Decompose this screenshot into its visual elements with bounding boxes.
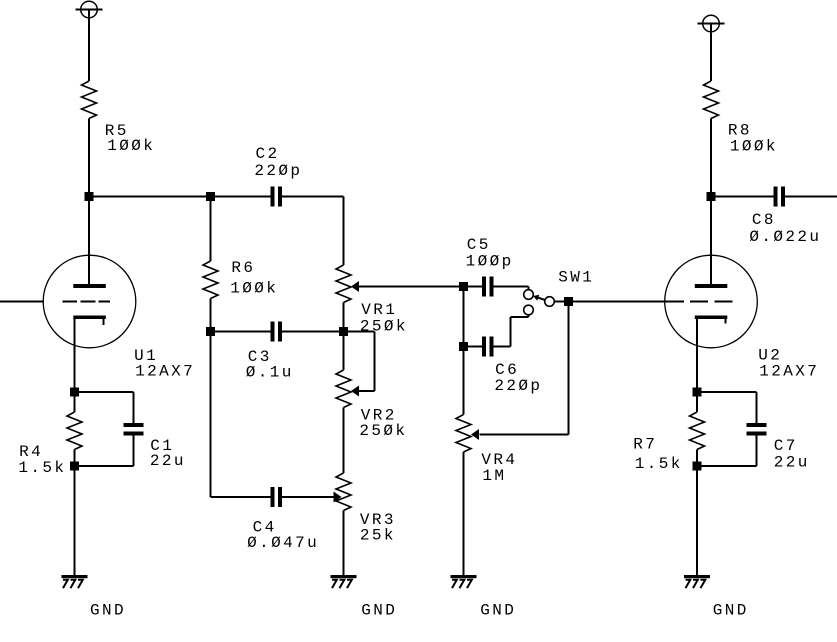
svg-text:25Øk: 25Øk: [359, 422, 407, 440]
svg-text:C7: C7: [774, 437, 798, 455]
svg-text:SW1: SW1: [558, 269, 594, 287]
svg-text:1ØØk: 1ØØk: [230, 280, 278, 298]
svg-text:1M: 1M: [482, 467, 506, 485]
svg-text:12AX7: 12AX7: [135, 363, 195, 381]
svg-text:12AX7: 12AX7: [759, 363, 819, 381]
svg-text:GND: GND: [480, 602, 516, 620]
svg-text:1.5k: 1.5k: [18, 459, 66, 477]
svg-text:C2: C2: [256, 145, 280, 163]
svg-text:1ØØk: 1ØØk: [107, 137, 155, 155]
svg-text:1.5k: 1.5k: [635, 455, 683, 473]
svg-text:GND: GND: [90, 602, 126, 620]
svg-text:C8: C8: [752, 211, 776, 229]
svg-text:R7: R7: [633, 436, 657, 454]
svg-text:25Øk: 25Øk: [360, 317, 408, 335]
svg-text:1ØØk: 1ØØk: [730, 138, 778, 156]
svg-text:Ø.Ø22u: Ø.Ø22u: [749, 228, 821, 246]
svg-text:22u: 22u: [774, 454, 810, 472]
svg-text:Ø.1u: Ø.1u: [246, 364, 294, 382]
svg-text:Ø.Ø47u: Ø.Ø47u: [247, 534, 319, 552]
svg-text:R6: R6: [231, 259, 255, 277]
svg-text:1ØØp: 1ØØp: [466, 253, 514, 271]
svg-text:25k: 25k: [360, 527, 396, 545]
svg-text:22Øp: 22Øp: [494, 377, 542, 395]
svg-text:VR1: VR1: [361, 301, 397, 319]
svg-text:C5: C5: [467, 236, 491, 254]
svg-text:22Øp: 22Øp: [254, 162, 302, 180]
svg-text:GND: GND: [361, 602, 397, 620]
svg-text:22u: 22u: [150, 452, 186, 470]
svg-text:GND: GND: [713, 602, 749, 620]
